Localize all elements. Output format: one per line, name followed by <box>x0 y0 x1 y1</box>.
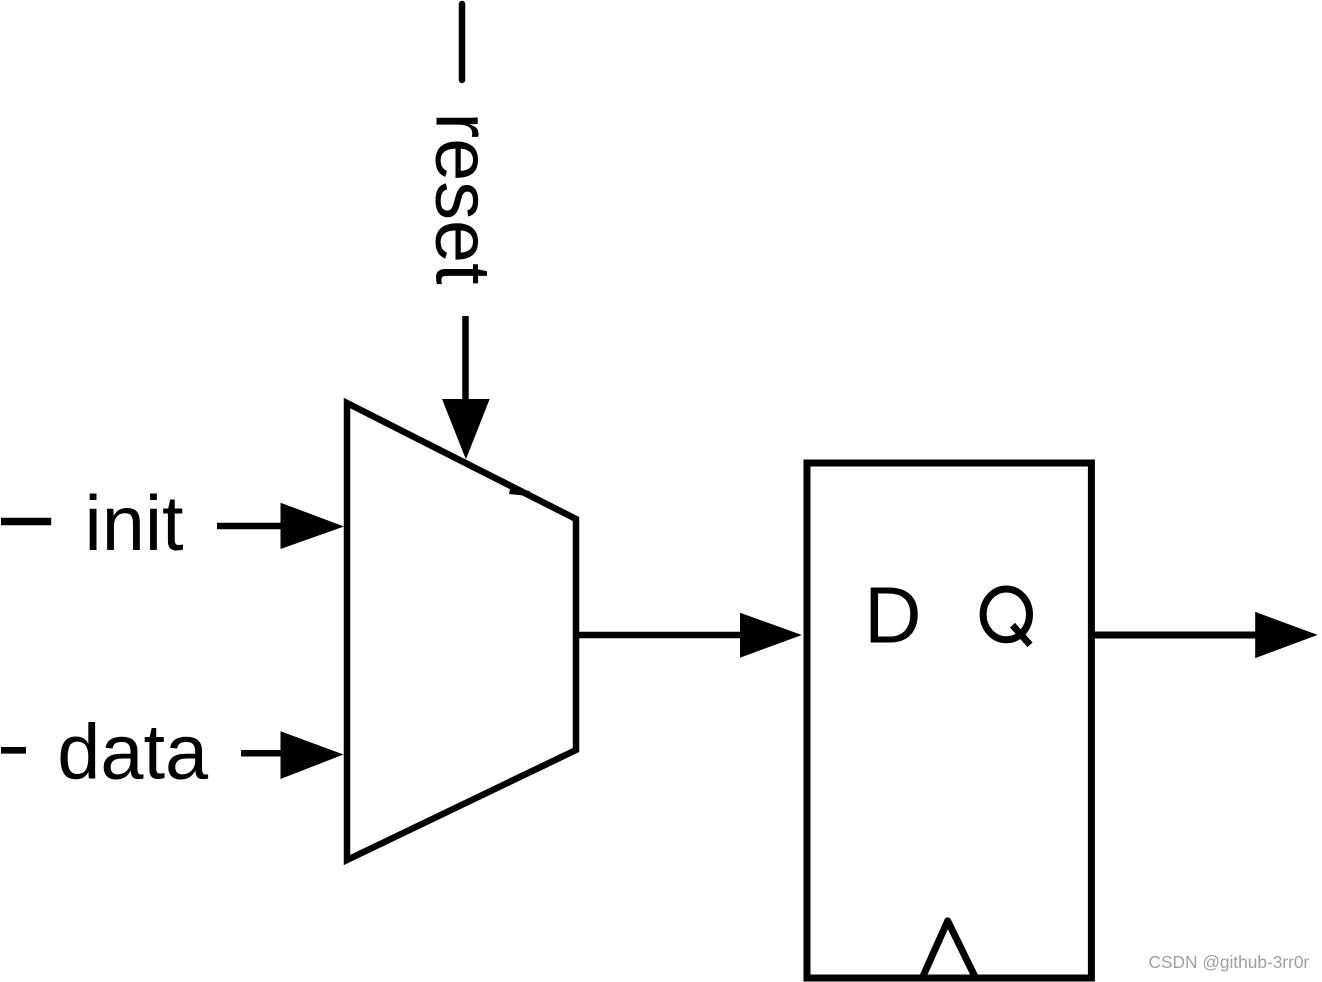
pin label Q <box>983 589 1030 645</box>
label data <box>57 710 209 796</box>
svg-text:data: data <box>57 710 209 796</box>
label reset <box>419 112 505 284</box>
label init <box>85 481 184 567</box>
flip-flop U2 box <box>807 463 1091 978</box>
pin label D <box>864 571 921 660</box>
wire Q output arrow <box>1091 612 1318 658</box>
pin stub init <box>1 518 51 525</box>
svg-text:D: D <box>864 571 921 660</box>
wire mux output to D input <box>576 613 802 658</box>
svg-text:CSDN @github-3rr0r: CSDN @github-3rr0r <box>1149 952 1310 972</box>
watermark <box>1149 952 1310 972</box>
pin stub data <box>1 747 26 754</box>
mux U1 <box>347 403 576 860</box>
svg-text:init: init <box>85 481 184 567</box>
wire data arrow <box>241 731 344 779</box>
wire reset arrow into mux select <box>442 316 490 459</box>
wire init arrow <box>217 503 344 549</box>
wire reset stub <box>459 4 466 80</box>
svg-text:reset: reset <box>419 112 505 284</box>
clock input triangle <box>921 921 976 980</box>
